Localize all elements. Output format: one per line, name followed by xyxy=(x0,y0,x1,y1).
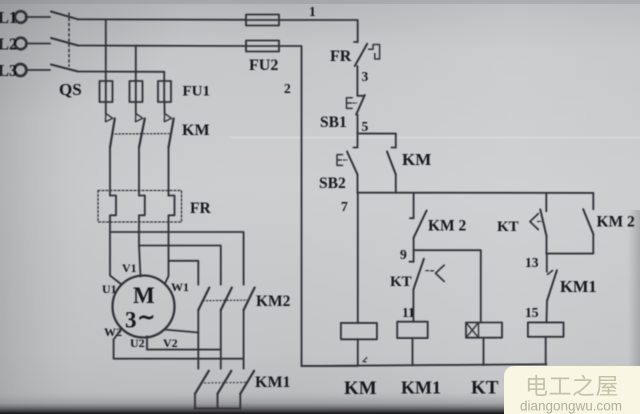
svg-text:3: 3 xyxy=(362,69,369,84)
svg-text:L3: L3 xyxy=(0,61,17,80)
corner vignette xyxy=(0,0,1,1)
wire column phase C xyxy=(163,72,165,81)
wire phase C to motor W1 xyxy=(165,261,169,284)
contact KM2 interlock (NC) branch xyxy=(410,193,427,262)
svg-text:KM: KM xyxy=(402,150,431,169)
svg-text:KM 2: KM 2 xyxy=(428,218,467,235)
terminal L1 xyxy=(0,8,27,27)
wire fuse2 to KM pole2 xyxy=(135,102,137,114)
wire L2 to QS xyxy=(26,43,50,45)
svg-text:U1: U1 xyxy=(102,282,117,296)
fuse FU2 pole2 xyxy=(246,41,279,52)
thermal relay FR heater1 xyxy=(110,196,116,233)
wire L3 row xyxy=(78,71,164,73)
contactor KM1 pole1 xyxy=(195,371,209,409)
motor M circle xyxy=(113,276,175,338)
wire phase A to motor U1 xyxy=(110,232,122,285)
wire SB2 to rail7 xyxy=(357,175,359,193)
contactor KM1 pole3 xyxy=(240,371,254,409)
switch QS pole3 blade xyxy=(51,65,78,72)
contactor KM2 pole1 xyxy=(198,288,209,369)
svg-text:FU1: FU1 xyxy=(183,84,211,100)
contactor KM2 pole2 xyxy=(221,288,232,369)
bottom dark photo edge xyxy=(0,392,640,414)
wire node9 to KT coil xyxy=(414,250,481,322)
svg-text:W1: W1 xyxy=(171,280,189,294)
thermal relay FR heater3 xyxy=(169,196,175,261)
wire KM pole3 to FR xyxy=(168,148,170,196)
svg-text:QS: QS xyxy=(59,80,82,99)
wire delta tap V1 row xyxy=(139,246,221,285)
wire KT coil to rail xyxy=(483,338,485,365)
wire column phase A xyxy=(105,19,107,81)
wire L1 to QS xyxy=(26,16,51,18)
svg-text:13: 13 xyxy=(525,255,539,270)
svg-text:U2: U2 xyxy=(130,336,145,350)
wire KM coil to rail xyxy=(357,339,359,365)
svg-text:V1: V1 xyxy=(122,261,137,275)
switch QS linkage (dashed) xyxy=(68,13,70,66)
wire fuse3 to KM pole3 xyxy=(163,102,165,114)
coil KM1 xyxy=(397,322,428,338)
wire motor U2 out xyxy=(147,336,221,349)
svg-text:3∼: 3∼ xyxy=(125,305,155,333)
svg-text:KT: KT xyxy=(497,219,519,235)
contactor KM2 linkage (dotted) xyxy=(203,299,249,302)
wire KT contact to KM1 coil xyxy=(412,290,414,322)
terminal L2 xyxy=(0,35,27,54)
thermal relay FR box (dashed) xyxy=(98,191,182,223)
svg-text:9: 9 xyxy=(400,247,407,262)
wire fuse1 to KM pole1 xyxy=(105,102,107,114)
switch QS pole2 blade xyxy=(51,38,78,46)
fuse FU2 pole1 xyxy=(246,15,279,26)
contact KM1 interlock (NC) xyxy=(547,254,557,301)
coil KM2 xyxy=(528,322,564,336)
svg-text:KT: KT xyxy=(471,378,499,399)
contact KT delayed (NC) xyxy=(410,259,445,290)
switch QS pole1 blade xyxy=(51,12,78,20)
contactor KM2 pole3 xyxy=(244,288,255,369)
wire 2 left rail xyxy=(279,46,358,366)
contactor KM main pole1 xyxy=(106,114,115,148)
svg-text:电工之屋: 电工之屋 xyxy=(525,373,619,399)
wire motor V2 out xyxy=(164,330,198,333)
fuse FU1 pole3 xyxy=(158,81,171,102)
wire node5 branch xyxy=(358,134,396,148)
wire SB1 to node5 xyxy=(357,115,359,134)
fuse FU1 pole2 xyxy=(130,81,143,102)
relay contact FR (NC, thermal) xyxy=(354,42,380,66)
svg-text:7: 7 xyxy=(341,199,348,214)
wire KM pole1 to FR xyxy=(109,148,111,196)
wire KM1 coil to rail xyxy=(412,338,414,365)
contactor KM1 linkage (dotted) xyxy=(201,381,247,384)
pushbutton SB2 (NO) xyxy=(337,134,358,175)
contact KM aux (NO) xyxy=(387,148,396,193)
stray tick mark xyxy=(363,358,367,363)
svg-text:diangongwu.com: diangongwu.com xyxy=(520,399,622,414)
wire motor W2 out xyxy=(114,328,244,358)
wire KM2 coil to rail xyxy=(545,337,547,365)
svg-text:FR: FR xyxy=(190,200,211,217)
svg-text:KM: KM xyxy=(344,378,377,399)
svg-text:KM1: KM1 xyxy=(560,277,597,296)
wire KM1 star bar xyxy=(195,408,241,410)
svg-text:1: 1 xyxy=(309,4,316,19)
svg-text:FU2: FU2 xyxy=(249,57,278,74)
svg-text:FR: FR xyxy=(330,48,352,65)
svg-text:5: 5 xyxy=(362,119,369,134)
fuse FU1 pole1 xyxy=(100,81,113,102)
paper crease highlight xyxy=(230,137,640,139)
wire 1 top xyxy=(279,20,358,42)
thermal relay FR heater2 xyxy=(139,196,145,246)
watermark box xyxy=(504,366,640,414)
wire phase B to motor V1 xyxy=(139,246,141,277)
terminal L3 xyxy=(0,61,26,80)
svg-text:L2: L2 xyxy=(0,35,17,54)
svg-text:SB2: SB2 xyxy=(319,175,346,192)
contactor KM main pole2 xyxy=(136,114,145,148)
svg-text:KM: KM xyxy=(182,122,210,139)
wire L1 row xyxy=(78,18,246,21)
wire bottom rail xyxy=(302,364,547,366)
wire KM1 contact to KM2 coil xyxy=(546,301,549,323)
svg-text:2: 2 xyxy=(284,81,291,96)
wire delta tap U1 row xyxy=(110,232,244,285)
wire delta tap W1 row xyxy=(169,261,199,285)
contactor KM linkage (dotted) xyxy=(112,133,169,135)
svg-text:L1: L1 xyxy=(0,8,17,27)
wire rail 7 xyxy=(358,192,594,194)
svg-text:KM 2: KM 2 xyxy=(597,214,636,231)
wire column phase B xyxy=(135,46,137,81)
svg-text:KT: KT xyxy=(390,274,412,290)
svg-text:15: 15 xyxy=(525,305,539,320)
coil KM xyxy=(341,323,377,339)
wire FR to SB1 xyxy=(356,66,358,96)
wire KM pole2 to FR xyxy=(138,148,140,196)
svg-text:V2: V2 xyxy=(163,336,178,350)
wire L3 to QS xyxy=(26,69,50,71)
contactor KM1 pole2 xyxy=(218,371,232,409)
pushbutton SB1 (NC) xyxy=(347,95,365,115)
contactor KM main pole3 xyxy=(164,114,173,148)
contact KM2 NC right branch xyxy=(547,193,594,254)
wire L2 row xyxy=(78,45,246,48)
wire KM coil branch xyxy=(357,193,359,323)
svg-text:SB1: SB1 xyxy=(320,114,347,131)
svg-text:KM1: KM1 xyxy=(401,378,441,398)
svg-text:KM2: KM2 xyxy=(256,293,291,310)
contact KT delayed close (NO) branch xyxy=(530,193,547,254)
coil KT (time relay with X box) xyxy=(466,323,502,338)
svg-text:KM1: KM1 xyxy=(255,374,291,391)
